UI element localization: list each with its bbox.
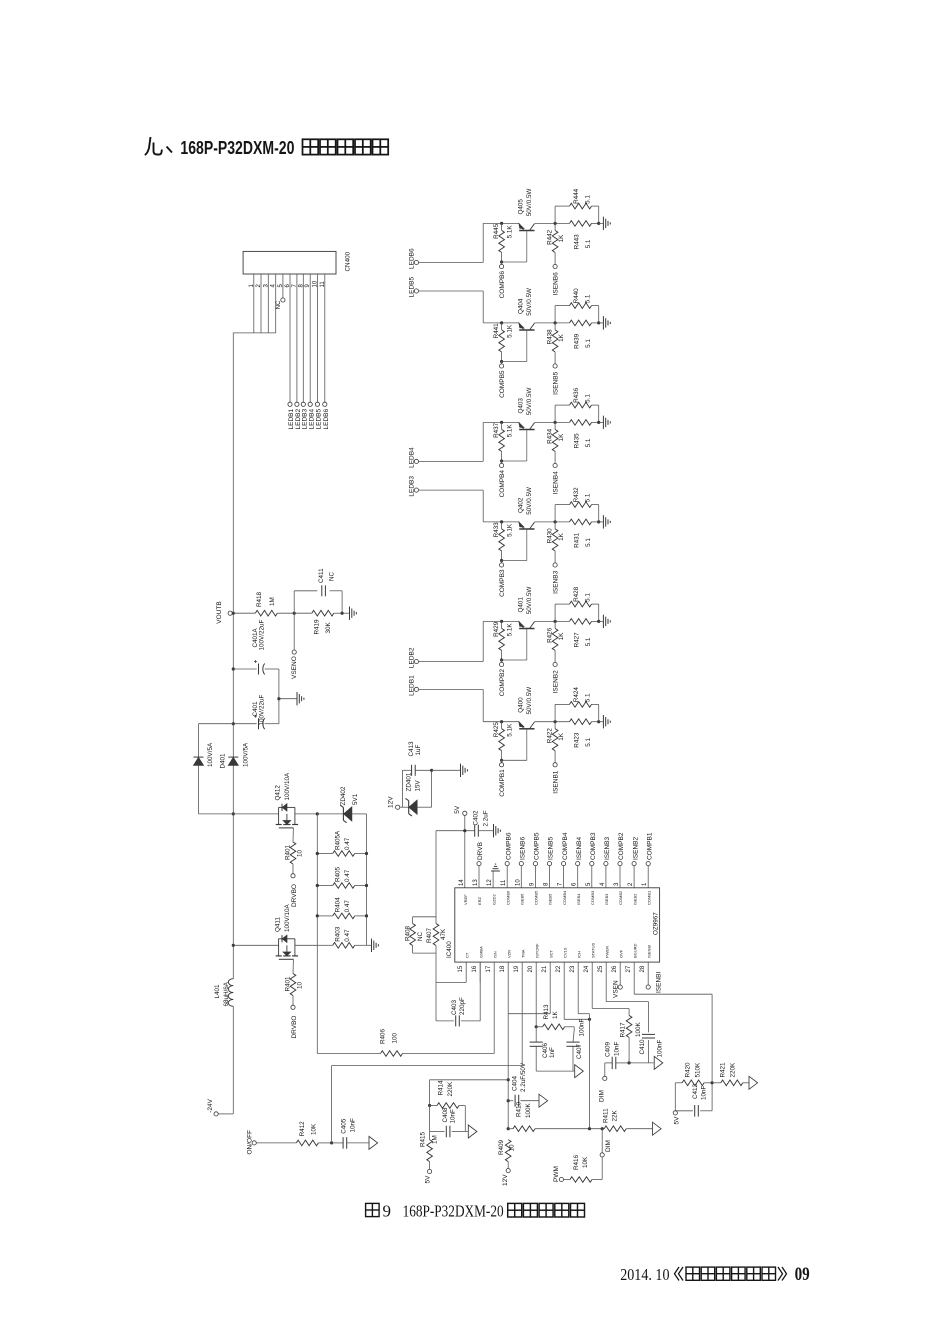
resistor R414 220K xyxy=(428,1104,431,1107)
node DIM junction xyxy=(588,1127,591,1130)
svg-text:R431: R431 xyxy=(574,532,581,548)
svg-text:VOUTB: VOUTB xyxy=(216,601,223,623)
resistor R442 1K xyxy=(552,230,558,252)
svg-text:220pF: 220pF xyxy=(459,997,466,1015)
wire left diode branch top xyxy=(199,723,234,725)
svg-text:R401: R401 xyxy=(285,976,292,992)
resistor R411 22K xyxy=(604,1126,626,1132)
svg-text:GZD2: GZD2 xyxy=(491,894,496,905)
svg-text:24: 24 xyxy=(584,965,590,972)
svg-text:0.47: 0.47 xyxy=(344,929,351,942)
node VSEN divider junction xyxy=(293,612,296,615)
transistor Q405 50V/0.5W xyxy=(519,230,534,232)
svg-text:ISENBI: ISENBI xyxy=(656,971,663,993)
wire switch node xyxy=(199,813,279,815)
svg-text:LEDB3: LEDB3 xyxy=(408,476,415,497)
terminal ISENB2 pin2 xyxy=(632,862,636,866)
capacitor C401A 100V/22uF xyxy=(233,668,256,670)
svg-text:CV1S: CV1S xyxy=(562,947,567,958)
svg-text:ISENB2: ISENB2 xyxy=(632,836,639,860)
svg-text:OVF: OVF xyxy=(618,949,623,958)
svg-text:220K: 220K xyxy=(730,1062,737,1078)
svg-text:COMB2: COMB2 xyxy=(618,890,623,905)
svg-text:220K: 220K xyxy=(447,1081,454,1097)
terminal 5V bottom-right xyxy=(673,1111,677,1115)
resistor R416 10K xyxy=(564,1179,571,1181)
svg-text:10nF: 10nF xyxy=(701,1085,708,1100)
svg-text:ISENB1: ISENB1 xyxy=(552,770,559,794)
svg-text:R428: R428 xyxy=(573,586,580,602)
ground stage 6 xyxy=(599,222,603,224)
svg-text:1: 1 xyxy=(249,284,255,288)
resistor R443 5.1 xyxy=(570,221,592,227)
svg-text:ISEB3: ISEB3 xyxy=(604,893,609,905)
capacitor C413 1uF xyxy=(401,770,403,807)
svg-text:IC400: IC400 xyxy=(446,941,453,958)
svg-text:R432: R432 xyxy=(573,487,580,503)
svg-text:47K: 47K xyxy=(440,928,447,940)
svg-text:50V/0.5W: 50V/0.5W xyxy=(526,687,533,715)
svg-text:VZR: VZR xyxy=(506,950,511,958)
wire collector rail Q405 xyxy=(535,222,570,224)
wire pin15 to RT xyxy=(436,981,466,983)
svg-text:COMPB4: COMPB4 xyxy=(562,832,569,860)
svg-text:C408: C408 xyxy=(442,1107,449,1123)
svg-text:1K: 1K xyxy=(558,732,565,741)
svg-text:18: 18 xyxy=(500,965,506,972)
svg-text:R440: R440 xyxy=(573,288,580,304)
IC pin 1 xyxy=(647,866,649,888)
resistor R401 10 gate Q412 xyxy=(292,828,294,842)
svg-text:ISENB4: ISENB4 xyxy=(576,836,583,860)
terminal DRVBO Q412 xyxy=(291,874,295,878)
wire LEDB1 to stage rail xyxy=(419,688,484,690)
svg-text:1K: 1K xyxy=(558,433,565,442)
resistor R440 5.1 xyxy=(554,306,556,323)
svg-text:100V/5A: 100V/5A xyxy=(243,742,250,767)
ground at C402 xyxy=(493,824,495,837)
svg-text:16: 16 xyxy=(472,965,478,972)
node VOUTB junctions xyxy=(232,612,235,615)
CN400 pin 2 lead xyxy=(260,274,262,333)
svg-text:Q411: Q411 xyxy=(275,917,282,932)
svg-text:R422: R422 xyxy=(546,728,553,744)
resistor R438 1K xyxy=(552,330,558,352)
svg-text:BGURD: BGURD xyxy=(632,943,637,958)
svg-text:ISEB2: ISEB2 xyxy=(632,893,637,905)
caption figure 9 xyxy=(366,1203,380,1216)
resistor R410 100K xyxy=(508,1128,513,1130)
svg-text:5.1: 5.1 xyxy=(585,538,592,547)
svg-text:5V: 5V xyxy=(674,1116,681,1125)
svg-text:10nF: 10nF xyxy=(614,1041,621,1056)
wire pin18 VDD lead xyxy=(507,962,509,1129)
svg-text:R424: R424 xyxy=(573,687,580,703)
svg-text:1K: 1K xyxy=(558,333,565,342)
wire base loop Q403 xyxy=(502,460,527,462)
resistor R434 1K xyxy=(552,429,558,451)
IC pin 3 xyxy=(619,866,621,888)
capacitor C403 220pF xyxy=(436,1020,454,1022)
svg-text:DRVB: DRVB xyxy=(477,842,484,860)
resistor R427 5.1 xyxy=(570,619,592,625)
resistor R423 5.1 xyxy=(570,719,592,725)
terminal COMPB5 pin9 xyxy=(533,862,537,866)
svg-text:STATUS: STATUS xyxy=(590,942,595,958)
svg-text:10: 10 xyxy=(297,981,304,989)
svg-text:R401: R401 xyxy=(285,844,292,860)
terminal VSEN pin26 xyxy=(619,962,621,985)
svg-text:C404: C404 xyxy=(512,1075,519,1091)
svg-text:14: 14 xyxy=(459,879,465,886)
svg-text:R411: R411 xyxy=(603,1108,610,1123)
svg-text:11: 11 xyxy=(501,879,507,886)
svg-text:09: 09 xyxy=(795,1264,810,1285)
svg-text:10: 10 xyxy=(312,280,318,287)
CN400 pin 11 lead xyxy=(324,274,326,402)
svg-text:R419: R419 xyxy=(314,619,321,635)
terminal -24V xyxy=(218,1113,233,1115)
svg-text:COMPB5: COMPB5 xyxy=(534,832,541,860)
terminal LEDB6 xyxy=(414,260,418,264)
wire pin21 stub xyxy=(549,962,551,1014)
terminal VSENO xyxy=(293,613,295,650)
svg-text:50V/0.5W: 50V/0.5W xyxy=(526,188,533,216)
svg-text:LEDB2: LEDB2 xyxy=(408,647,415,668)
svg-text:COMPB2: COMPB2 xyxy=(499,669,506,697)
capacitor C405 10nF xyxy=(332,1142,344,1144)
svg-text:26: 26 xyxy=(612,965,618,972)
zener ZD401 15V xyxy=(400,806,409,808)
svg-text:100V/10A: 100V/10A xyxy=(284,772,291,800)
svg-text:C406: C406 xyxy=(542,1042,549,1058)
svg-text:19: 19 xyxy=(514,965,520,972)
svg-text:R443: R443 xyxy=(574,234,581,250)
svg-text:5.1: 5.1 xyxy=(585,239,592,248)
capacitor C407 100nF xyxy=(573,1027,575,1030)
svg-text:100V/10A: 100V/10A xyxy=(284,904,291,932)
svg-text:1M: 1M xyxy=(269,597,276,606)
svg-text:1M: 1M xyxy=(432,1135,439,1144)
terminal COMPB5 xyxy=(501,362,503,364)
svg-text:ERZ: ERZ xyxy=(477,896,482,905)
CN400 pin 9 lead xyxy=(309,274,311,402)
svg-text:C402: C402 xyxy=(473,810,480,826)
zener ZD402 5V1 xyxy=(317,813,343,815)
svg-text:COMB4: COMB4 xyxy=(562,890,567,905)
CN400 terminal LEDB3 xyxy=(301,402,305,406)
resistor R428 5.1 xyxy=(554,604,556,621)
svg-text:COMPB1: COMPB1 xyxy=(499,769,506,797)
svg-text:R426: R426 xyxy=(546,627,553,643)
svg-text:30K: 30K xyxy=(325,621,332,633)
svg-text:ISENB3: ISENB3 xyxy=(552,570,559,594)
svg-text:COMPB6: COMPB6 xyxy=(505,832,512,860)
wire sense bus left xyxy=(316,814,318,945)
CN400 pin 3 lead xyxy=(267,274,269,333)
svg-text:5.1: 5.1 xyxy=(585,637,592,646)
svg-text:R429: R429 xyxy=(493,621,500,637)
svg-text:5V: 5V xyxy=(425,1175,432,1184)
svg-text:Q412: Q412 xyxy=(275,785,282,801)
svg-text:COMPB3: COMPB3 xyxy=(499,569,506,597)
svg-text:0.47: 0.47 xyxy=(344,837,351,850)
svg-text:100V/5A: 100V/5A xyxy=(207,742,214,767)
resistor R424 5.1 xyxy=(554,704,556,721)
svg-text:ISENBI: ISENBI xyxy=(646,945,651,958)
terminal ISENBI pin28 xyxy=(647,962,649,985)
wire LEDB2 to stage rail xyxy=(419,661,484,663)
terminal LEDB2 xyxy=(414,660,418,664)
terminal COMPB3 xyxy=(501,561,503,563)
svg-text:R414: R414 xyxy=(438,1080,445,1096)
IC pin 11 xyxy=(506,866,508,888)
svg-text:R436: R436 xyxy=(573,387,580,403)
ground triangle at R411 xyxy=(653,1122,662,1135)
svg-text:R408: R408 xyxy=(405,925,412,941)
terminal PWM xyxy=(559,1177,563,1181)
resistor R402 10 gate Q411 xyxy=(292,959,294,973)
svg-text:5.1: 5.1 xyxy=(585,737,592,746)
svg-text:VREF: VREF xyxy=(463,894,468,905)
svg-text:C405: C405 xyxy=(340,1118,347,1134)
terminal ISENB5 xyxy=(553,364,557,368)
terminal COMPB1 pin1 xyxy=(646,862,650,866)
transistor Q400 50V/0.5W xyxy=(519,728,534,730)
svg-text:100K: 100K xyxy=(525,1102,532,1118)
svg-text:5.1: 5.1 xyxy=(585,394,592,403)
CN400 pin 1 lead xyxy=(253,274,255,333)
svg-text:15V: 15V xyxy=(415,779,422,791)
svg-text:25: 25 xyxy=(598,965,604,972)
wire LEDB3 to stage rail xyxy=(419,489,484,491)
terminal ISENB6 pin10 xyxy=(519,862,523,866)
terminal ISENB4 xyxy=(553,463,557,467)
svg-text:100K: 100K xyxy=(635,1021,642,1037)
ground triangle at C408 xyxy=(465,1131,468,1133)
wire pin22 to DIM node xyxy=(563,962,565,1019)
resistor R441 5.1K xyxy=(500,321,503,324)
terminal COMPB4 pin7 xyxy=(562,862,566,866)
svg-text:COMPB1: COMPB1 xyxy=(646,832,653,860)
svg-text:ZD402: ZD402 xyxy=(340,786,347,805)
resistor R403 0.47 xyxy=(317,944,332,946)
svg-text:1K: 1K xyxy=(558,632,565,641)
svg-text:5.1: 5.1 xyxy=(585,339,592,348)
resistor R425 5.1K xyxy=(500,720,503,723)
transistor Q404 50V/0.5W xyxy=(519,329,534,331)
resistor R433 5.1K xyxy=(500,520,503,523)
terminal ISENB4 pin6 xyxy=(576,862,580,866)
wire collector rail Q401 xyxy=(535,620,570,622)
terminal COMPB3 pin5 xyxy=(590,862,594,866)
svg-text:1nF: 1nF xyxy=(549,1047,556,1058)
terminal COMPB6 pin11 xyxy=(505,862,509,866)
svg-text:2014. 10: 2014. 10 xyxy=(620,1265,669,1284)
CN400 pin 8 lead xyxy=(302,274,304,402)
svg-text:5.1K: 5.1K xyxy=(507,424,514,438)
wire Q411 source to sense bus xyxy=(295,944,317,946)
resistor R405 0.47 xyxy=(317,885,332,887)
CN400 terminal LEDB4 xyxy=(308,402,312,406)
resistor R437 5.1K xyxy=(500,421,503,424)
svg-text:LEDB4: LEDB4 xyxy=(408,447,415,468)
svg-text:COMPB2: COMPB2 xyxy=(618,832,625,860)
svg-text:COMPB4: COMPB4 xyxy=(499,470,506,498)
node enable junction xyxy=(330,1141,333,1144)
svg-text:DIM: DIM xyxy=(599,1090,606,1102)
svg-text:R416: R416 xyxy=(573,1154,580,1170)
svg-text:5.1: 5.1 xyxy=(585,493,592,502)
wire LEDB6 to stage rail xyxy=(419,262,484,264)
svg-text:SCT: SCT xyxy=(548,949,553,958)
resistor R406 100 current sense feed xyxy=(317,1053,380,1055)
wire pin16 to C403 xyxy=(479,962,481,982)
svg-text:LEDB6: LEDB6 xyxy=(323,409,330,430)
svg-text:100nF: 100nF xyxy=(657,1039,664,1057)
svg-text:17: 17 xyxy=(486,965,492,972)
svg-text:5.1: 5.1 xyxy=(585,294,592,303)
CN400 pin 5 lead xyxy=(282,274,284,298)
wire collector rail Q404 xyxy=(535,322,570,324)
CN400 pin 7 lead xyxy=(296,274,298,402)
svg-text:R438: R438 xyxy=(546,329,553,345)
resistor R426 1K xyxy=(552,628,558,650)
transistor Q411 100V/10A MOSFET xyxy=(278,939,280,956)
resistor R431 5.1 xyxy=(570,519,592,525)
wire cap bus to ground xyxy=(278,669,280,724)
svg-text:50V/0.5W: 50V/0.5W xyxy=(526,487,533,515)
svg-text:ISENB5: ISENB5 xyxy=(552,371,559,395)
svg-text:ICH: ICH xyxy=(576,951,581,958)
svg-text:R445: R445 xyxy=(493,223,500,239)
terminal ISENB5 pin8 xyxy=(547,862,551,866)
svg-text:50V/0.5W: 50V/0.5W xyxy=(526,387,533,415)
wire 5V node xyxy=(464,815,466,887)
svg-text:12V: 12V xyxy=(388,796,395,808)
capacitor C410 100nF xyxy=(605,962,607,1002)
transistor Q403 50V/0.5W xyxy=(519,429,534,431)
terminal VOUTB xyxy=(228,611,232,615)
resistor R444 5.1 xyxy=(554,206,556,223)
terminal ODIM xyxy=(601,1157,603,1180)
ground stage 4 xyxy=(599,421,603,423)
title text 168P-P32DXM-20 xyxy=(145,137,172,155)
svg-text:C403: C403 xyxy=(451,999,458,1015)
terminal LEDB5 xyxy=(414,289,418,293)
svg-text:R407: R407 xyxy=(426,927,433,943)
wire Q411 drain line xyxy=(233,944,278,946)
svg-text:R442: R442 xyxy=(546,229,553,245)
IC pin 5 xyxy=(591,866,593,888)
svg-text:12V: 12V xyxy=(502,1174,509,1186)
svg-text:R412: R412 xyxy=(299,1121,306,1137)
terminal LEDB3 xyxy=(414,488,418,492)
IC pin 2 xyxy=(633,866,635,888)
terminal DRVBO Q411 xyxy=(291,1005,295,1009)
svg-text:100nF: 100nF xyxy=(579,1018,586,1036)
resistor R436 5.1 xyxy=(554,405,556,422)
svg-text:0.47: 0.47 xyxy=(344,900,351,913)
resistor R430 1K xyxy=(552,529,558,551)
CN400 pin 10 lead xyxy=(316,274,318,402)
svg-text:R427: R427 xyxy=(574,632,581,648)
svg-text:Q404: Q404 xyxy=(517,298,524,314)
CN400 pin5 NC terminal xyxy=(281,298,285,302)
ground triangle compensation xyxy=(536,1070,574,1072)
CN400 terminal LEDB2 xyxy=(295,402,299,406)
svg-text:5.1: 5.1 xyxy=(585,693,592,702)
svg-text:100V/22uF: 100V/22uF xyxy=(259,695,266,726)
resistor R421 220K xyxy=(712,1082,721,1084)
svg-text:R435: R435 xyxy=(574,433,581,449)
svg-text:R403: R403 xyxy=(335,926,342,942)
svg-text:15: 15 xyxy=(458,965,464,972)
resistor R408 NC xyxy=(413,916,436,918)
wire collector rail Q403 xyxy=(535,421,570,423)
terminal ISENB3 pin4 xyxy=(604,862,608,866)
IC pin 6 xyxy=(577,866,579,888)
svg-text:R405A: R405A xyxy=(335,830,342,850)
svg-text:50V/0.5W: 50V/0.5W xyxy=(526,288,533,316)
svg-text:R425: R425 xyxy=(493,722,500,738)
wire base loop Q404 xyxy=(502,361,527,363)
capacitor C404 2.2uF/50V xyxy=(507,1099,510,1102)
svg-text:C412: C412 xyxy=(692,1083,699,1099)
svg-text:COMPB3: COMPB3 xyxy=(590,832,597,860)
ground sense bank xyxy=(367,944,372,946)
svg-text:COMB5: COMB5 xyxy=(534,890,539,905)
resistor R435 5.1 xyxy=(570,420,592,426)
IC U400 OZ9967 body xyxy=(455,888,660,962)
svg-text:DRVBO: DRVBO xyxy=(291,1016,298,1039)
terminal LEDB1 xyxy=(414,687,418,691)
svg-text:1K: 1K xyxy=(558,234,565,243)
ground stage 5 xyxy=(599,322,603,324)
resistor R404 0.47 xyxy=(317,915,332,917)
svg-text:Q402: Q402 xyxy=(517,497,524,513)
terminal COMPB1 xyxy=(501,760,503,762)
inductor L401 68uH/6A xyxy=(228,979,233,1007)
wire base loop Q400 xyxy=(502,759,527,761)
terminal ON/OFF xyxy=(252,1141,256,1145)
svg-text:R413: R413 xyxy=(543,1004,550,1020)
ground stage 1 xyxy=(599,721,603,723)
svg-text:LEDB1: LEDB1 xyxy=(408,675,415,696)
wire collector rail Q402 xyxy=(535,521,570,523)
resistor R415 1M xyxy=(429,1132,431,1140)
svg-text:2.2uF/50V: 2.2uF/50V xyxy=(520,1062,527,1092)
svg-text:NC: NC xyxy=(275,300,282,310)
IC pin 13 xyxy=(478,866,480,888)
svg-text:R420: R420 xyxy=(685,1062,692,1078)
svg-text:COMB1: COMB1 xyxy=(646,890,651,905)
svg-text:5V1: 5V1 xyxy=(352,793,359,805)
wire pin23 to DIM node xyxy=(577,962,579,1014)
svg-text:10: 10 xyxy=(297,849,304,857)
svg-text:0.47: 0.47 xyxy=(344,869,351,882)
svg-text:21: 21 xyxy=(542,965,548,972)
svg-text:10nF: 10nF xyxy=(450,1109,457,1124)
svg-text:5.1K: 5.1K xyxy=(507,623,514,637)
svg-text:PWER: PWER xyxy=(604,946,609,958)
svg-text:20: 20 xyxy=(528,965,534,972)
svg-text:ISENB5: ISENB5 xyxy=(548,836,555,860)
resistor R439 5.1 xyxy=(570,320,592,326)
resistor R405A 0.47 xyxy=(317,853,332,855)
svg-text:R415: R415 xyxy=(420,1131,427,1147)
svg-text:ISEB6: ISEB6 xyxy=(520,893,525,905)
